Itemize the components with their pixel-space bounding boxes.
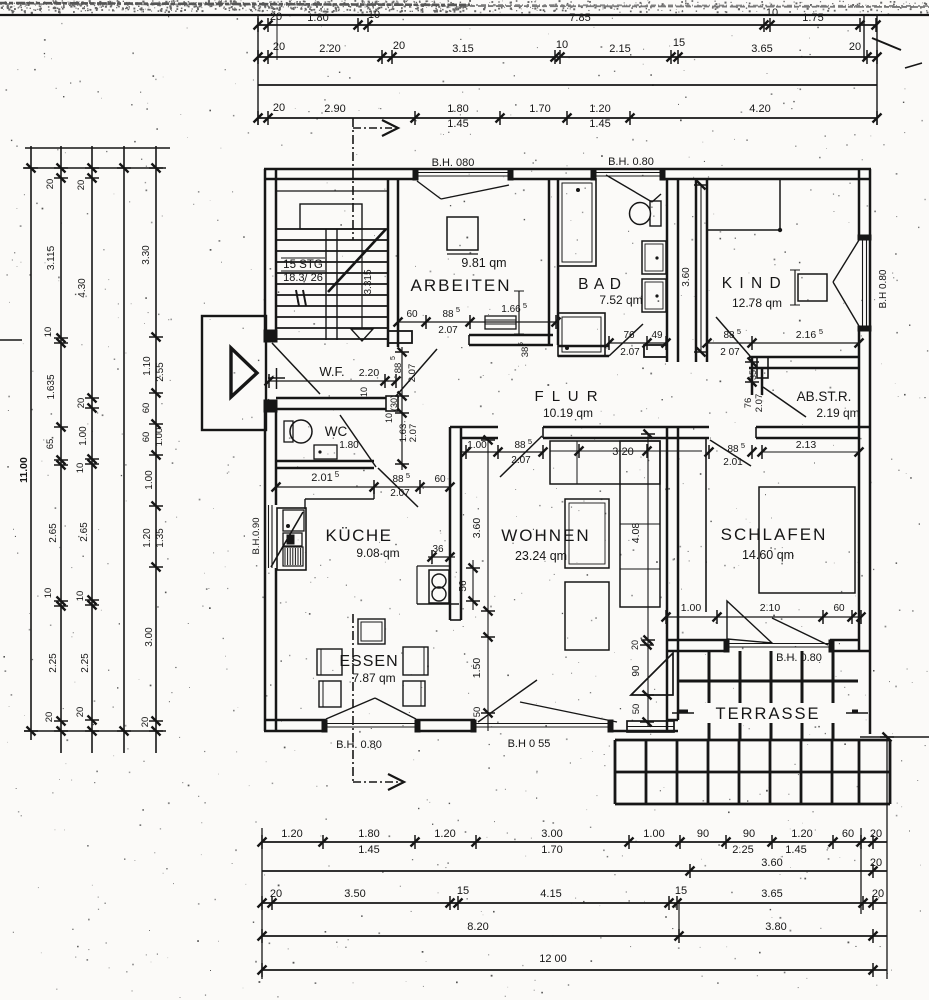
svg-text:5: 5 xyxy=(528,437,532,446)
schlafen dim 2.13 xyxy=(762,451,859,453)
left chain3 line xyxy=(91,146,93,753)
svg-text:4.08: 4.08 xyxy=(630,523,642,544)
sofa dim 3.20 xyxy=(553,450,598,452)
kind wardrobe xyxy=(706,179,708,230)
wall schlafen west lower line xyxy=(705,438,707,612)
svg-text:3.60: 3.60 xyxy=(681,267,692,287)
schlafen south wall outer xyxy=(666,650,727,653)
kueche dim line xyxy=(276,486,450,488)
svg-text:1.00: 1.00 xyxy=(78,426,89,446)
svg-text:12.78 qm: 12.78 qm xyxy=(732,296,782,310)
outer wall bottom outer line xyxy=(264,730,326,733)
abstr door swing xyxy=(763,387,806,417)
svg-text:1.635: 1.635 xyxy=(46,374,57,399)
section arrow top xyxy=(353,127,392,129)
svg-text:B.H 0.80: B.H 0.80 xyxy=(878,269,889,308)
wall bad-kind upper xyxy=(666,179,669,362)
svg-text:B.H. 0.80: B.H. 0.80 xyxy=(336,739,382,751)
svg-text:60: 60 xyxy=(141,403,152,414)
svg-text:KÜCHE: KÜCHE xyxy=(325,526,392,545)
wall block bad-kind south xyxy=(644,345,667,357)
svg-text:10: 10 xyxy=(368,9,380,21)
top dim row C plain line xyxy=(258,84,877,86)
stair up diagonal xyxy=(328,229,386,292)
outer wall right inner line xyxy=(858,169,861,239)
window sill kueche left xyxy=(268,505,270,568)
terrace right dim line xyxy=(886,737,888,828)
svg-text:5: 5 xyxy=(523,301,527,310)
svg-text:10.19 qm: 10.19 qm xyxy=(543,406,593,420)
svg-text:2.90: 2.90 xyxy=(324,103,345,115)
wall wc north xyxy=(276,397,386,400)
left chain overall ticks xyxy=(24,167,38,169)
entrance jamb caps xyxy=(264,330,277,342)
left chain4 plain line xyxy=(123,146,125,753)
section line top vertical dash-dot xyxy=(352,118,354,240)
wall kueche-wohnen xyxy=(449,427,452,620)
sofa top band xyxy=(550,441,660,484)
kueche cabinet step xyxy=(305,498,374,500)
essen window swing xyxy=(326,698,375,719)
left chain2 ticks xyxy=(54,167,68,169)
wall abstr west xyxy=(751,357,754,395)
svg-text:20: 20 xyxy=(44,712,55,723)
svg-text:10: 10 xyxy=(43,327,54,338)
wohnen dim left chain xyxy=(487,440,489,731)
svg-text:3.30: 3.30 xyxy=(141,245,152,265)
svg-text:4.30: 4.30 xyxy=(77,278,88,298)
left chain2 line xyxy=(60,146,62,753)
svg-text:5: 5 xyxy=(737,327,741,336)
porch triangle xyxy=(231,348,257,397)
svg-text:20: 20 xyxy=(76,180,87,191)
svg-text:2.20: 2.20 xyxy=(319,43,340,55)
bad window swing xyxy=(606,175,652,202)
svg-text:20: 20 xyxy=(270,11,282,23)
svg-text:3.65: 3.65 xyxy=(761,888,782,900)
terrace label band xyxy=(688,703,852,723)
horizontal page fold line xyxy=(0,14,929,16)
wf dim line xyxy=(269,380,396,382)
bottom dim row2 line xyxy=(262,870,887,872)
kueche sink hatch xyxy=(283,547,303,566)
stove xyxy=(429,570,449,603)
entrance door cross xyxy=(268,377,285,379)
svg-text:3:20: 3:20 xyxy=(612,446,633,458)
svg-text:1.50: 1.50 xyxy=(471,658,483,679)
svg-text:90: 90 xyxy=(631,665,642,677)
svg-text:15: 15 xyxy=(675,885,687,897)
svg-text:5: 5 xyxy=(406,471,410,480)
top right corner mark xyxy=(872,38,901,50)
svg-text:2.25: 2.25 xyxy=(80,653,91,673)
svg-text:12 00: 12 00 xyxy=(539,953,567,965)
svg-text:38: 38 xyxy=(520,347,531,358)
svg-text:B.H 0 55: B.H 0 55 xyxy=(508,738,551,750)
svg-text:2.07: 2.07 xyxy=(390,488,410,499)
svg-text:K I N D: K I N D xyxy=(722,275,782,292)
svg-text:60: 60 xyxy=(141,432,152,443)
svg-text:20: 20 xyxy=(45,179,56,190)
bottom dim row3 ticks xyxy=(261,896,263,910)
wall abstr north xyxy=(749,356,859,359)
stair walk line xyxy=(361,229,363,329)
svg-text:20: 20 xyxy=(273,102,285,114)
top dim row B line xyxy=(258,56,877,58)
essen chair ne xyxy=(403,647,428,675)
svg-text:AB.ST.R.: AB.ST.R. xyxy=(797,389,852,404)
kueche counter xyxy=(277,508,306,570)
window sill arbeiten top xyxy=(417,172,509,174)
kind window V xyxy=(833,240,859,282)
svg-text:90: 90 xyxy=(743,828,755,840)
svg-text:2.65: 2.65 xyxy=(48,523,59,543)
svg-text:2.13: 2.13 xyxy=(796,439,817,451)
arbeiten desk xyxy=(447,217,478,250)
svg-text:WC: WC xyxy=(325,424,348,439)
section line bottom vertical dash-dot xyxy=(352,614,354,782)
terrace grid lower xyxy=(614,740,617,804)
sofa right band xyxy=(620,441,660,607)
svg-text:5: 5 xyxy=(390,356,397,360)
svg-text:60: 60 xyxy=(842,828,854,840)
svg-text:B.H. 0.80: B.H. 0.80 xyxy=(608,156,654,168)
left chain4 end ticks xyxy=(117,167,131,169)
bathtub xyxy=(558,179,596,266)
outer wall top outer line xyxy=(264,168,871,171)
stove counter line xyxy=(417,565,449,567)
wc door swing xyxy=(340,415,376,467)
svg-text:WOHNEN: WOHNEN xyxy=(501,526,590,545)
svg-text:1.70: 1.70 xyxy=(529,103,550,115)
svg-text:2.01: 2.01 xyxy=(311,472,332,484)
svg-text:11.00: 11.00 xyxy=(18,457,30,483)
terrace grid upper xyxy=(708,651,711,740)
arbeiten window V xyxy=(417,181,441,199)
kueche door swing xyxy=(378,468,418,507)
svg-text:2.15: 2.15 xyxy=(609,43,630,55)
svg-text:1.45: 1.45 xyxy=(589,118,610,130)
kind dim line xyxy=(707,342,756,344)
essen chair sw xyxy=(319,681,341,707)
schlafen bed xyxy=(759,487,855,593)
left dim top tie line xyxy=(23,167,166,169)
kind dim 3.60 xyxy=(700,185,702,352)
window sill essen bottom xyxy=(326,723,416,725)
top dim row D line xyxy=(258,117,877,119)
scan noise band top xyxy=(0,4,929,6)
svg-text:76: 76 xyxy=(743,398,754,409)
svg-text:(30): (30) xyxy=(389,395,399,411)
svg-text:4.15: 4.15 xyxy=(540,888,561,900)
kueche counter diagonal xyxy=(271,512,303,567)
wohnen table xyxy=(565,499,609,568)
window sill bad top xyxy=(595,172,661,174)
svg-text:1.20: 1.20 xyxy=(142,528,153,548)
left chain5 ticks xyxy=(149,167,163,169)
essen chair se xyxy=(403,681,425,706)
top dim row A ticks xyxy=(257,18,259,32)
svg-text:3.60: 3.60 xyxy=(761,857,782,869)
svg-text:2 07: 2 07 xyxy=(720,347,740,358)
svg-text:2.01: 2.01 xyxy=(723,457,743,468)
door post wf xyxy=(386,396,398,411)
window sill kind right xyxy=(862,239,864,327)
svg-text:65: 65 xyxy=(45,439,56,450)
svg-text:10: 10 xyxy=(75,591,86,602)
svg-text:88: 88 xyxy=(442,309,454,320)
wc dim chain vertical xyxy=(401,347,403,470)
svg-text:88: 88 xyxy=(514,440,526,451)
svg-text:20: 20 xyxy=(273,41,285,53)
svg-text:2.20: 2.20 xyxy=(359,367,380,379)
terrace door swing triangle xyxy=(631,653,673,695)
bad dim line xyxy=(609,342,666,344)
left chain overall line xyxy=(30,146,32,740)
svg-text:3.115: 3.115 xyxy=(46,245,57,270)
svg-text:TERRASSE: TERRASSE xyxy=(716,705,821,723)
svg-text:60: 60 xyxy=(833,603,845,614)
svg-text:88: 88 xyxy=(727,444,739,455)
outer wall right outer line xyxy=(869,169,872,734)
section arrow bottom xyxy=(353,781,398,783)
wohnen door swing xyxy=(500,436,542,477)
essen chair nw xyxy=(317,649,342,675)
arbeiten dim line xyxy=(398,321,556,323)
svg-text:1.80: 1.80 xyxy=(358,828,379,840)
svg-text:2.19 qm: 2.19 qm xyxy=(816,406,859,420)
svg-text:60: 60 xyxy=(406,309,418,320)
svg-text:5: 5 xyxy=(518,342,525,346)
wohnen window swing xyxy=(478,680,537,722)
stove dim 56 xyxy=(472,560,474,610)
svg-text:2.07: 2.07 xyxy=(407,364,418,383)
bottom dim row3 line xyxy=(262,902,887,904)
window sill schlafen xyxy=(727,643,830,645)
svg-text:20: 20 xyxy=(849,41,861,53)
bottom dim row1 ticks xyxy=(261,835,263,849)
svg-text:1.20: 1.20 xyxy=(434,828,455,840)
kueche counter units xyxy=(283,510,304,531)
svg-text:88: 88 xyxy=(393,363,404,374)
svg-text:2.07: 2.07 xyxy=(754,394,765,413)
svg-text:1.00: 1.00 xyxy=(144,470,155,490)
svg-text:15: 15 xyxy=(457,885,469,897)
schlafen dim line xyxy=(666,616,861,618)
svg-text:50: 50 xyxy=(631,704,642,715)
svg-text:7.87 qm: 7.87 qm xyxy=(352,671,395,685)
wall wc south xyxy=(276,460,374,463)
svg-text:1.00: 1.00 xyxy=(154,428,165,447)
svg-text:8.20: 8.20 xyxy=(467,921,488,933)
outer wall left inner line xyxy=(275,169,278,342)
svg-text:10: 10 xyxy=(556,39,568,51)
wall flur south segment west xyxy=(450,426,498,429)
svg-text:9.08 qm: 9.08 qm xyxy=(356,546,399,560)
svg-text:1.00: 1.00 xyxy=(467,440,487,451)
bad shower xyxy=(558,313,605,356)
svg-text:5: 5 xyxy=(819,327,823,336)
svg-text:7.52 qm: 7.52 qm xyxy=(599,293,642,307)
svg-text:1.80: 1.80 xyxy=(447,103,468,115)
svg-text:3.00: 3.00 xyxy=(144,627,155,647)
outer wall top inner line xyxy=(264,178,417,181)
svg-text:2.07: 2.07 xyxy=(438,325,458,336)
wall wohnen east lower xyxy=(666,427,669,731)
svg-text:SCHLAFEN: SCHLAFEN xyxy=(721,525,828,544)
outer wall left outer line xyxy=(264,169,267,342)
svg-text:3.65: 3.65 xyxy=(751,43,772,55)
left chain3 ticks xyxy=(85,167,99,169)
bottom dim row5 line xyxy=(262,969,887,971)
svg-text:2.07: 2.07 xyxy=(408,424,419,443)
bad sink 1 xyxy=(642,241,666,274)
svg-text:15: 15 xyxy=(673,37,685,49)
left dim upper border line xyxy=(25,147,170,149)
svg-text:2.10: 2.10 xyxy=(760,602,781,614)
schlafen door swing xyxy=(710,440,751,466)
bottom dim row4 line xyxy=(262,935,887,937)
wohnen table 2 xyxy=(565,582,609,650)
wc sink xyxy=(314,445,337,459)
svg-text:10: 10 xyxy=(384,413,394,423)
svg-text:B.H. 080: B.H. 080 xyxy=(432,157,475,169)
svg-text:3.80: 3.80 xyxy=(765,921,786,933)
svg-text:20: 20 xyxy=(872,888,884,900)
stair rail xyxy=(325,229,327,340)
stair landing rect xyxy=(300,204,362,229)
kind door swing xyxy=(716,317,750,356)
stair upper landing line xyxy=(277,190,388,192)
svg-text:W.F.: W.F. xyxy=(319,364,344,379)
top dim vertical stub x277 xyxy=(276,15,278,60)
svg-text:1.80: 1.80 xyxy=(307,12,328,24)
svg-text:10: 10 xyxy=(75,463,86,474)
svg-text:20: 20 xyxy=(75,707,86,718)
outer wall bottom inner line xyxy=(264,719,326,722)
wall kind west upper xyxy=(695,179,698,362)
svg-text:88: 88 xyxy=(723,330,735,341)
arbeiten shelf xyxy=(485,316,516,329)
svg-text:3.50: 3.50 xyxy=(344,888,365,900)
svg-text:F L U R: F L U R xyxy=(534,388,599,405)
svg-text:10: 10 xyxy=(43,588,54,599)
svg-text:60: 60 xyxy=(434,474,446,485)
wall stair-arbeiten xyxy=(387,179,390,347)
bad toilet xyxy=(650,201,661,226)
kind dim line 2 xyxy=(756,342,859,344)
svg-text:2.65: 2.65 xyxy=(79,522,90,542)
svg-text:3.315: 3.315 xyxy=(363,269,374,294)
svg-text:10: 10 xyxy=(359,387,369,397)
svg-text:10: 10 xyxy=(766,7,778,19)
stair level marks xyxy=(296,290,299,306)
svg-text:20: 20 xyxy=(270,888,282,900)
left chain5 line xyxy=(155,146,157,753)
svg-text:ESSEN: ESSEN xyxy=(339,653,398,670)
flur dim line xyxy=(461,451,543,453)
svg-text:20: 20 xyxy=(630,640,640,650)
wall stub kind south xyxy=(757,357,768,378)
wall arbeiten-bad xyxy=(548,179,551,345)
svg-text:90: 90 xyxy=(697,828,709,840)
svg-text:5: 5 xyxy=(335,470,340,479)
svg-text:15 STG: 15 STG xyxy=(283,259,323,271)
svg-text:76: 76 xyxy=(623,330,635,341)
stair down arrow xyxy=(351,329,373,341)
svg-text:ARBEITEN: ARBEITEN xyxy=(410,276,511,295)
svg-text:B.H. 0.80: B.H. 0.80 xyxy=(776,652,822,664)
wc toilet xyxy=(284,421,293,442)
svg-text:1.45: 1.45 xyxy=(447,118,468,130)
scan speckle noise xyxy=(593,26,596,29)
svg-text:7.85: 7.85 xyxy=(569,12,590,24)
top dim right vertical xyxy=(876,15,878,125)
top dim row D ticks xyxy=(257,111,259,125)
svg-text:9.81 qm: 9.81 qm xyxy=(461,256,506,270)
left edge registration mark xyxy=(0,339,22,341)
svg-text:1.20: 1.20 xyxy=(791,828,812,840)
bottom dim right verticals xyxy=(860,828,862,914)
svg-text:2.25: 2.25 xyxy=(732,844,753,856)
top dim row A line xyxy=(258,24,877,26)
top dim row B ticks xyxy=(257,50,259,64)
svg-text:3.15: 3.15 xyxy=(452,43,473,55)
svg-text:1.66: 1.66 xyxy=(501,304,521,315)
svg-text:5: 5 xyxy=(456,305,460,314)
svg-text:1.45: 1.45 xyxy=(358,844,379,856)
svg-text:1.75: 1.75 xyxy=(802,12,823,24)
top dim left vertical xyxy=(257,15,259,125)
svg-text:B.H.0.90: B.H.0.90 xyxy=(251,518,262,555)
svg-text:18.3/ 26: 18.3/ 26 xyxy=(283,272,323,284)
bad sink 2 xyxy=(642,279,666,312)
svg-text:56: 56 xyxy=(458,580,469,592)
window sill wohnen bottom xyxy=(475,723,612,725)
svg-text:50: 50 xyxy=(472,707,483,718)
svg-text:20: 20 xyxy=(870,828,882,840)
svg-text:1.00: 1.00 xyxy=(681,602,702,614)
svg-text:20: 20 xyxy=(870,857,882,869)
wohnen dim 4.08 xyxy=(647,434,649,640)
svg-text:1.20: 1.20 xyxy=(281,828,302,840)
svg-text:3.00: 3.00 xyxy=(541,828,562,840)
svg-text:1.00: 1.00 xyxy=(643,828,664,840)
svg-text:5: 5 xyxy=(741,441,745,450)
svg-text:3.60: 3.60 xyxy=(471,518,483,539)
svg-text:20: 20 xyxy=(393,40,405,52)
bottom dim connector x679 xyxy=(678,903,680,936)
svg-text:23.24 qm: 23.24 qm xyxy=(515,549,567,563)
terrace corner line right xyxy=(860,736,929,738)
kind table xyxy=(798,274,827,301)
bad door swing xyxy=(609,324,643,356)
svg-text:1.35: 1.35 xyxy=(155,528,166,548)
wall stub stair south xyxy=(388,331,412,343)
stair treads xyxy=(277,228,388,230)
svg-text:1.80: 1.80 xyxy=(339,440,359,451)
wf corridor door swing xyxy=(396,349,437,396)
svg-text:88: 88 xyxy=(392,474,404,485)
svg-text:20: 20 xyxy=(76,398,87,409)
svg-text:2.55: 2.55 xyxy=(155,362,166,382)
svg-text:2.07: 2.07 xyxy=(620,347,640,358)
bottom dim left vertical xyxy=(261,828,263,979)
svg-text:4.20: 4.20 xyxy=(749,103,770,115)
wall bad south xyxy=(558,345,609,348)
essen table top xyxy=(358,619,385,644)
left dim bottom tie line xyxy=(24,730,166,732)
